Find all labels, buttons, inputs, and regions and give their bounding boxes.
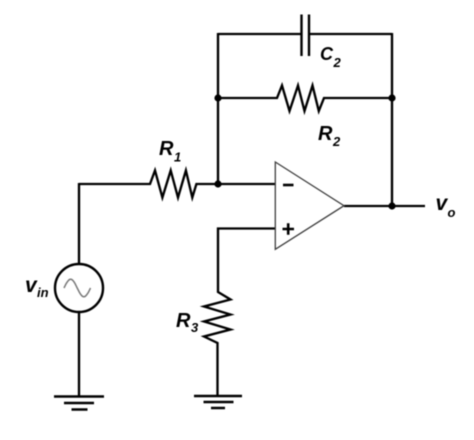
svg-text:3: 3 bbox=[191, 320, 199, 335]
svg-text:o: o bbox=[448, 205, 456, 220]
svg-text:in: in bbox=[37, 285, 49, 300]
svg-text:2: 2 bbox=[333, 55, 342, 70]
svg-text:2: 2 bbox=[332, 134, 341, 149]
svg-text:C: C bbox=[320, 44, 334, 64]
svg-text:1: 1 bbox=[174, 150, 181, 165]
svg-text:R: R bbox=[318, 123, 333, 145]
svg-text:R: R bbox=[159, 138, 174, 160]
svg-text:R: R bbox=[176, 310, 191, 332]
